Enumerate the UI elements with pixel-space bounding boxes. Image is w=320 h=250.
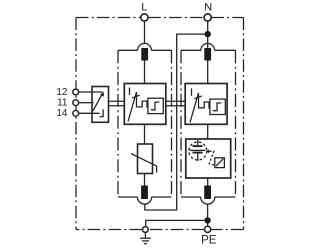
wire to PE xyxy=(207,204,209,226)
wire PE node to earth terminal xyxy=(146,220,205,226)
disconnector N black block xyxy=(204,48,211,61)
varistor MOV xyxy=(131,144,157,174)
svg-text:14: 14 xyxy=(56,108,68,119)
trigger circuit box xyxy=(215,158,225,168)
wire 14 xyxy=(79,112,100,114)
terminal circle PE xyxy=(205,226,211,232)
wire disconnector to spark gap box L xyxy=(144,61,146,84)
trigger dashed flash line xyxy=(209,151,215,165)
terminal circle earth xyxy=(143,227,149,233)
arm arrowhead xyxy=(100,92,104,97)
contact hook 14 xyxy=(100,109,104,116)
lower disconnector L arc xyxy=(138,197,152,204)
svg-text:11: 11 xyxy=(57,98,68,109)
N-PE spark gap unit box xyxy=(186,139,231,178)
wire box N to N-PE gap unit xyxy=(207,124,209,139)
terminal circle N xyxy=(204,14,211,21)
spark gap symbol L xyxy=(128,88,163,122)
mechanical linkage double line left xyxy=(109,101,125,106)
GDT electrodes xyxy=(190,140,206,161)
wire box L to varistor xyxy=(144,124,146,144)
changeover arm xyxy=(93,95,102,111)
terminal circle 12 xyxy=(73,89,79,95)
gas discharge tube dashed circle xyxy=(189,142,207,160)
lower disconnector N black block xyxy=(204,186,211,200)
mechanical linkage double line middle xyxy=(166,101,185,106)
lower disconnector N arc xyxy=(201,197,215,204)
remote signalling contact box xyxy=(92,87,109,123)
spark gap symbol N xyxy=(190,88,225,122)
lower disconnector L black block xyxy=(141,186,148,200)
device boundary dash-dot frame xyxy=(76,18,244,230)
disconnector L black block xyxy=(141,48,148,61)
module frame L top rails xyxy=(118,49,172,51)
N terminal wire xyxy=(207,21,209,48)
junction dot PE xyxy=(204,217,210,223)
earth symbol xyxy=(140,233,151,244)
terminal circle 11 xyxy=(73,100,79,106)
module frame N top rails xyxy=(181,49,236,51)
wire varistor to lower disconnector L xyxy=(144,174,146,186)
svg-text:12: 12 xyxy=(56,87,68,98)
trigger arrow head xyxy=(206,149,209,153)
terminal circle 14 xyxy=(73,110,79,116)
module frame L (dash-dot sides) xyxy=(118,50,172,197)
disconnector N arc xyxy=(201,43,215,50)
spark gap box L xyxy=(124,84,166,125)
wire L output stair to N node xyxy=(145,34,205,210)
svg-text:PE: PE xyxy=(201,235,217,247)
svg-text:N: N xyxy=(204,2,212,14)
spark gap box N xyxy=(185,84,227,125)
wire disconnector to spark gap box N xyxy=(207,61,209,84)
trigger circuit diagonal xyxy=(216,159,223,166)
wire N-PE unit to lower disconnector N xyxy=(207,178,209,186)
disconnector L arc xyxy=(138,43,152,50)
module frame L bottom rails xyxy=(118,196,172,198)
terminal circle L xyxy=(141,14,148,21)
module frame N (dash-dot sides) xyxy=(181,50,236,197)
wire L terminal to disconnector xyxy=(144,21,146,44)
wire 11 xyxy=(79,102,94,104)
module frame N bottom rails xyxy=(181,196,236,198)
svg-text:L: L xyxy=(141,2,147,14)
wire 12 xyxy=(79,91,104,93)
junction dot N xyxy=(205,31,211,37)
